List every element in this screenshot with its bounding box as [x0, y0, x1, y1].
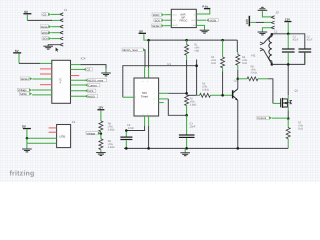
net label Voltage (divider): [86, 132, 101, 136]
node (threshold T): [195, 64, 198, 67]
resistor R6 1k (vertical, rail to base node): [211, 40, 225, 95]
wire SCK to J1 pin5: [51, 38, 60, 40]
power flag 5V (at IC4): [13, 49, 21, 54]
node (USB 5V): [26, 137, 29, 140]
svg-text:Current: Current: [88, 84, 97, 87]
svg-text:MISO: MISO: [88, 96, 95, 99]
wire prog GND to ground: [196, 25, 204, 29]
wire ground to J3 pin1: [262, 10, 271, 17]
node (C3 bottom): [185, 147, 188, 150]
resistor R8 3.3k (vertical, divider top): [99, 111, 115, 134]
resistor R3 3.3k (horizontal, to Q1 base): [197, 82, 233, 97]
svg-text:RESET: RESET: [152, 25, 161, 28]
net label MOSI: [41, 31, 51, 35]
net label CS: [42, 13, 51, 17]
wire MOSI to J1 pin4: [51, 32, 60, 34]
svg-text:J3: J3: [275, 10, 279, 14]
net label CS (IC4): [71, 68, 86, 70]
wire prog +5 to P-5v: [196, 9, 210, 14]
capacitor C1 47uF: [282, 34, 299, 65]
power flag 12V (vertical, J3 pin2): [245, 16, 250, 26]
svg-text:L1: L1: [274, 29, 278, 33]
svg-text:1kΩ: 1kΩ: [211, 62, 216, 65]
ground (IC4 right): [101, 73, 111, 76]
svg-text:H1: H1: [251, 54, 255, 58]
inductor L1: [269, 29, 278, 64]
node (divider mid): [100, 133, 103, 136]
capacitor C3 10nF: [179, 122, 196, 148]
svg-text:1kΩ: 1kΩ: [298, 127, 303, 130]
ground (J1): [43, 46, 53, 49]
svg-text:1kΩ: 1kΩ: [194, 50, 199, 53]
wire 555 pin6 down-around: [159, 98, 169, 100]
wire coil top to caps: [272, 34, 305, 49]
node (C1 top): [287, 33, 290, 36]
svg-text:X1: X1: [72, 120, 76, 124]
ground (bottom rail): [180, 153, 190, 156]
net label RESET (prog): [152, 24, 165, 28]
mouse cursor: [56, 47, 59, 51]
svg-text:Timer: Timer: [141, 94, 149, 98]
wire MOSI to IC4: [32, 94, 52, 96]
ratsnest stub (X1 D+): [49, 131, 57, 133]
svg-text:USB: USB: [59, 134, 65, 138]
node (C4 top): [125, 129, 128, 132]
svg-text:SCK: SCK: [88, 90, 94, 93]
resistor R4 1k (vertical, rail to Q1 collector): [236, 52, 248, 79]
net label MOSI (IC4): [19, 92, 32, 96]
wire USB VCC: [26, 129, 28, 138]
svg-text:Voltage: Voltage: [87, 132, 96, 135]
net label SCK (prog): [154, 19, 164, 23]
net label MOSI (prog right): [206, 19, 218, 23]
power flag P-5v: [202, 6, 210, 10]
node (R2 top): [185, 92, 188, 95]
resistor R5 220 (horizontal, to Q2 gate): [238, 65, 281, 103]
svg-text:J1: J1: [64, 8, 68, 12]
svg-text:3.3kΩ: 3.3kΩ: [190, 103, 197, 106]
svg-text:10nF: 10nF: [189, 125, 195, 128]
power flag 5V (555 rail): [139, 29, 146, 34]
ratsnest stub (IC4 left pin 3): [40, 73, 52, 75]
node (drain top): [287, 63, 290, 66]
svg-text:NE555_reset: NE555_reset: [123, 49, 138, 52]
svg-text:MOSI: MOSI: [191, 19, 196, 22]
net label Current (tap): [257, 116, 272, 120]
node (Q1 collector / R5): [237, 78, 240, 81]
net label Current (IC4): [71, 84, 87, 86]
pin stub 555 pin3: [159, 102, 164, 104]
resistor R1 1k (vertical, rail to node): [185, 40, 201, 60]
net label MISO (prog): [152, 13, 164, 17]
wire SCK to prog: [164, 19, 171, 21]
node (C4 bottom): [125, 147, 128, 150]
net label Voltage (IC4): [17, 88, 32, 92]
connector H1 (2-pin, to coil): [251, 42, 263, 58]
wire Q2 source down: [287, 107, 289, 111]
net label NE555_reset (555): [122, 48, 146, 52]
ground (prog): [200, 30, 210, 33]
ground (divider): [96, 153, 106, 156]
node (Q1 base): [221, 94, 224, 97]
svg-text:3.3kΩ: 3.3kΩ: [108, 128, 115, 131]
svg-text:NE555_reset: NE555_reset: [88, 80, 103, 83]
net label RESET: [40, 25, 51, 29]
net label NE555_reset (IC4): [71, 79, 87, 81]
wire Q2 drain up: [287, 64, 289, 95]
wire coil bottom to caps bottom: [272, 53, 305, 65]
transistor Q1 (NPN): [232, 79, 238, 149]
wire J1 pin6 to ground: [48, 45, 60, 46]
svg-text:3.3kΩ: 3.3kΩ: [108, 146, 115, 149]
svg-text:Q1: Q1: [234, 79, 238, 82]
svg-text:3.3kΩ: 3.3kΩ: [202, 88, 209, 91]
wire top rail: [149, 39, 238, 41]
svg-text:7: 7: [154, 92, 155, 95]
svg-text:RESET: RESET: [21, 78, 30, 81]
ratsnest stub (IC4 right): [71, 75, 80, 77]
node (Q1 emitter bottom): [237, 147, 240, 150]
wire 555 pin5 to bottom rail: [148, 116, 150, 126]
wire J3 pin3 to ground: [262, 28, 271, 32]
wire RESET to IC4: [32, 78, 52, 80]
net label SCK (IC4): [71, 90, 87, 92]
power flag 12V (divider): [97, 106, 104, 111]
power flag 5V (top-left): [23, 10, 31, 21]
svg-text:MISO: MISO: [172, 13, 177, 16]
wire 555 pin7 to R1/R2 node: [159, 92, 169, 94]
svg-text:Q2: Q2: [294, 90, 298, 93]
wire node to R3 riser: [187, 94, 197, 96]
wire prog MOSI pin: [196, 19, 206, 21]
wire Current to node: [272, 117, 288, 119]
wire 5V to rail node: [144, 34, 149, 40]
svg-text:MOSI: MOSI: [210, 19, 217, 22]
wire MISO to prog: [164, 14, 171, 16]
wire H1 pin2 to coil bottom: [263, 50, 272, 65]
node (coil top): [271, 33, 274, 36]
wire 555 threshold chain (left): [123, 66, 197, 98]
wire rail to ground stub: [184, 148, 186, 152]
ground (inverted, J3 pin1): [258, 7, 268, 10]
ground (USB): [22, 149, 32, 152]
wire USB GND: [26, 138, 28, 148]
svg-text:RESET: RESET: [172, 24, 179, 27]
svg-text:6: 6: [154, 98, 155, 101]
svg-text:3: 3: [154, 101, 155, 104]
transistor Q2 (N-MOSFET): [280, 90, 298, 108]
svg-text:4: 4: [147, 80, 148, 83]
svg-text:1: 1: [143, 113, 144, 116]
wire H1 pin1 to coil top: [263, 34, 272, 43]
wire riser (threshold T): [196, 60, 198, 96]
node (555 pin5 bottom): [147, 147, 150, 150]
wire 12V to J3 pin2: [250, 21, 256, 23]
power flag 12V (caps): [284, 18, 291, 23]
net label RESET (IC4): [20, 77, 32, 81]
ratsnest stub (X1 D-): [49, 127, 57, 129]
capacitor C4 10nF: [120, 124, 134, 148]
wire bottom rail (ground net): [124, 147, 288, 149]
svg-text:PROG: PROG: [180, 20, 188, 23]
wire 5V to IC4 pin VCC: [18, 54, 20, 64]
connector J3 (3-pin): [271, 10, 279, 29]
svg-text:12V: 12V: [245, 18, 249, 24]
svg-text:2: 2: [135, 96, 136, 99]
connector J1 (6-pin female header, top-left): [60, 13, 64, 46]
ratsnest stub (IC4 left pin 2): [40, 68, 52, 70]
svg-text:1kΩ: 1kΩ: [242, 62, 247, 65]
node (R2 bottom): [185, 114, 188, 117]
svg-text:CS: CS: [43, 14, 47, 17]
net label SCK: [42, 37, 51, 41]
power flag 5V (USB): [22, 124, 31, 129]
wire 555 pin1 to C4: [144, 116, 146, 126]
node (5V rail junction): [147, 39, 150, 42]
svg-text:fritzing: fritzing: [10, 169, 35, 177]
svg-text:RESET: RESET: [41, 26, 50, 29]
wire IC4 pin to ground (right top): [71, 64, 81, 66]
node (coil bottom): [271, 63, 274, 66]
svg-text:47µF: 47µF: [293, 39, 299, 42]
svg-text:SCK: SCK: [43, 38, 49, 41]
wire rail to 555 pin 8: [148, 40, 150, 67]
svg-text:Current: Current: [258, 117, 267, 120]
svg-text:CS: CS: [87, 69, 91, 72]
svg-text:5: 5: [147, 113, 148, 116]
AVR ISP programmer U5: [171, 9, 196, 27]
node (rail / R6 top): [221, 39, 224, 42]
wire rail corner to R4: [236, 40, 238, 52]
node (Current tap): [287, 117, 290, 120]
resistor R9 3.3k (vertical, divider bottom): [99, 134, 115, 152]
svg-text:IC4: IC4: [81, 56, 86, 60]
resistor R7 1k (vertical, source to rail): [286, 119, 304, 149]
wire 5V to J1 pin2: [27, 19, 52, 21]
svg-text:47µF: 47µF: [307, 39, 313, 42]
resistor R2 3.3k (vertical): [185, 95, 197, 116]
svg-text:MOSI: MOSI: [20, 93, 27, 96]
IC4 microcontroller: [52, 60, 71, 103]
wire Voltage to IC4: [32, 89, 52, 91]
wire 12V to cap node: [287, 22, 289, 33]
wire CS to J1 pin1: [51, 13, 60, 15]
svg-text:10nF: 10nF: [128, 127, 134, 130]
svg-text:8: 8: [143, 80, 144, 83]
wire NE555_reset to 555 pin 4: [144, 50, 146, 68]
wire node to C3: [186, 115, 188, 134]
svg-text:SCK: SCK: [155, 19, 161, 22]
ratsnest stub (IC4 left pin 5): [40, 84, 52, 86]
svg-text:MOSI: MOSI: [42, 32, 49, 35]
svg-text:220Ω: 220Ω: [251, 71, 257, 74]
svg-text:+5: +5: [193, 13, 195, 16]
svg-text:MISO: MISO: [153, 14, 160, 17]
ground (J3 pin3): [258, 32, 268, 35]
svg-text:GND: GND: [192, 24, 197, 27]
net label MISO (IC4): [71, 95, 87, 97]
connector X1 USB: [57, 120, 76, 147]
wire R1 down to node: [186, 60, 188, 93]
capacitor C2 47uF: [299, 36, 313, 65]
node (rail / R1 top): [185, 39, 188, 42]
wire RESET to J1 pin3: [51, 26, 60, 28]
IC 555 timer: [134, 78, 159, 116]
wire RESET to prog: [164, 25, 171, 27]
